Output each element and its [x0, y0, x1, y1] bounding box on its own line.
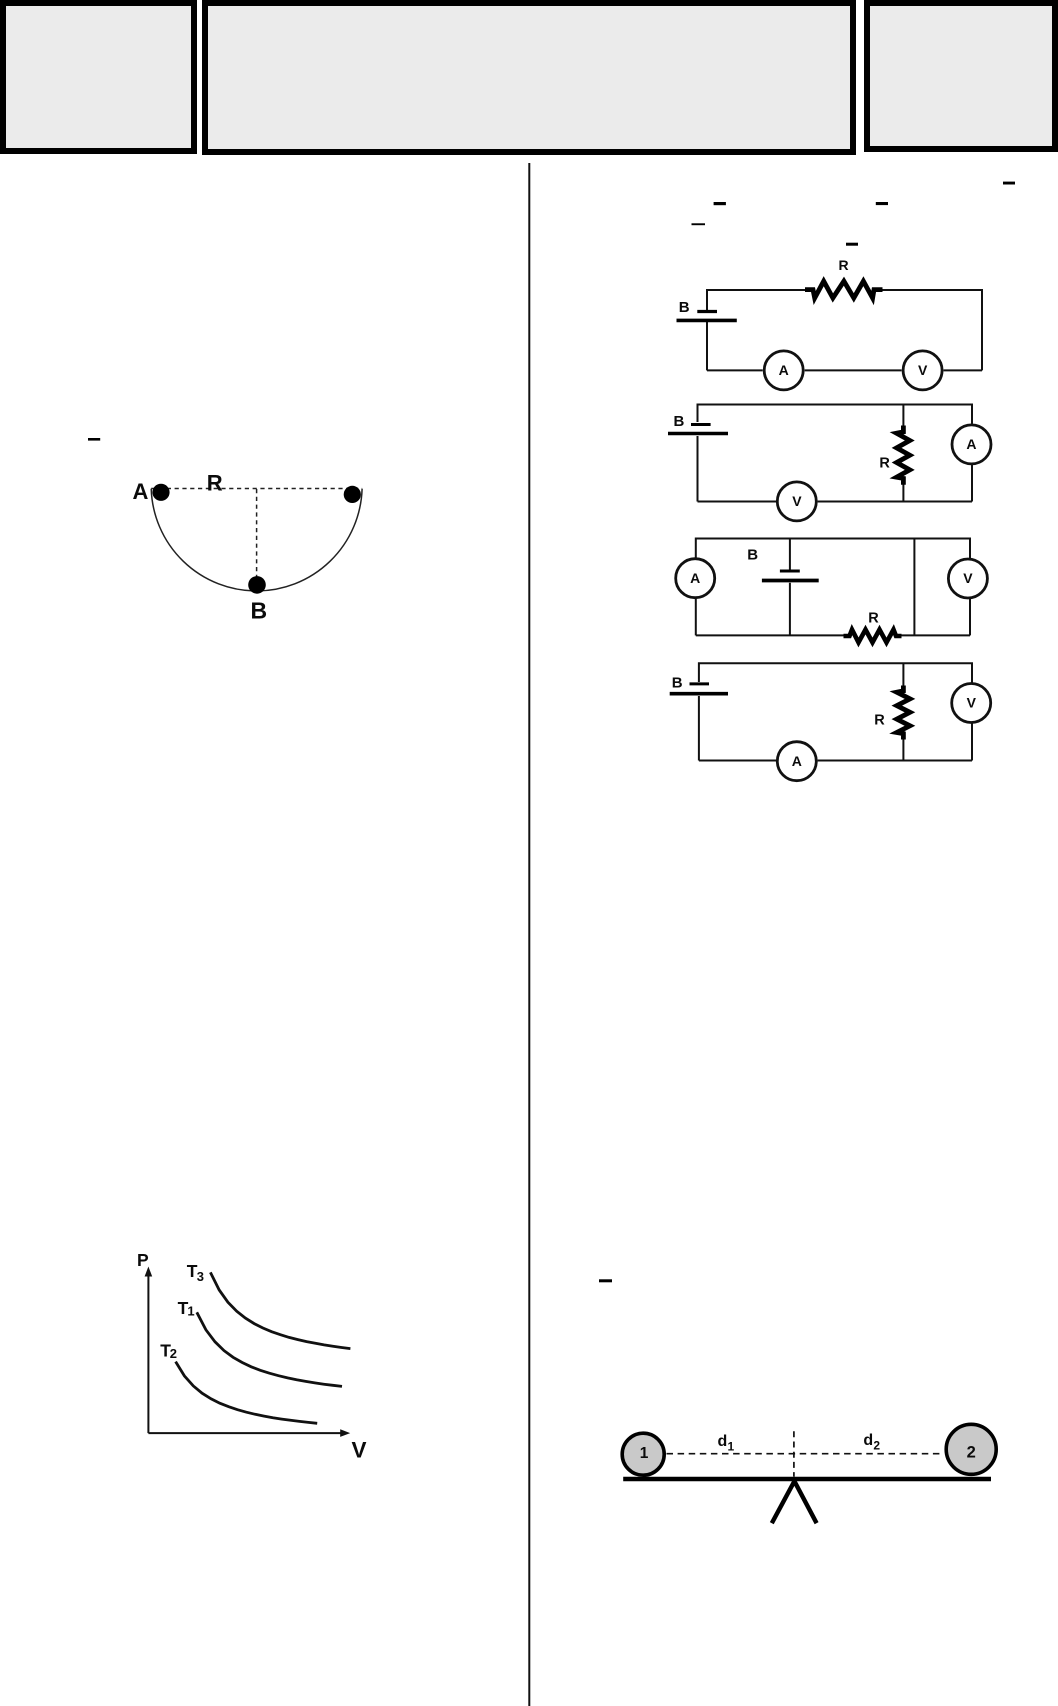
svg-text:R: R: [879, 456, 890, 472]
svg-text:B: B: [747, 546, 758, 563]
svg-text:d: d: [718, 1433, 728, 1450]
svg-text:2: 2: [873, 1439, 880, 1453]
svg-text:d: d: [863, 1432, 873, 1449]
svg-text:A: A: [779, 362, 789, 378]
svg-text:R: R: [868, 611, 879, 627]
svg-text:R: R: [839, 257, 849, 273]
svg-text:1: 1: [640, 1445, 649, 1462]
svg-text:V: V: [792, 493, 802, 509]
svg-text:P: P: [137, 1250, 149, 1270]
svg-text:A: A: [966, 436, 976, 452]
svg-text:1: 1: [187, 1304, 194, 1319]
svg-text:A: A: [792, 753, 802, 769]
svg-text:V: V: [918, 362, 928, 378]
svg-text:B: B: [251, 598, 268, 624]
svg-text:V: V: [352, 1438, 367, 1463]
svg-text:2: 2: [967, 1444, 976, 1462]
svg-text:A: A: [133, 479, 149, 504]
svg-text:B: B: [674, 413, 685, 430]
svg-text:V: V: [963, 570, 973, 586]
svg-text:2: 2: [170, 1346, 177, 1361]
svg-text:A: A: [690, 570, 700, 586]
svg-text:R: R: [207, 470, 223, 495]
svg-text:B: B: [679, 299, 690, 316]
svg-text:1: 1: [728, 1440, 735, 1454]
svg-text:3: 3: [197, 1269, 204, 1284]
svg-text:V: V: [967, 695, 977, 711]
svg-text:B: B: [672, 675, 683, 692]
svg-text:R: R: [874, 712, 885, 728]
